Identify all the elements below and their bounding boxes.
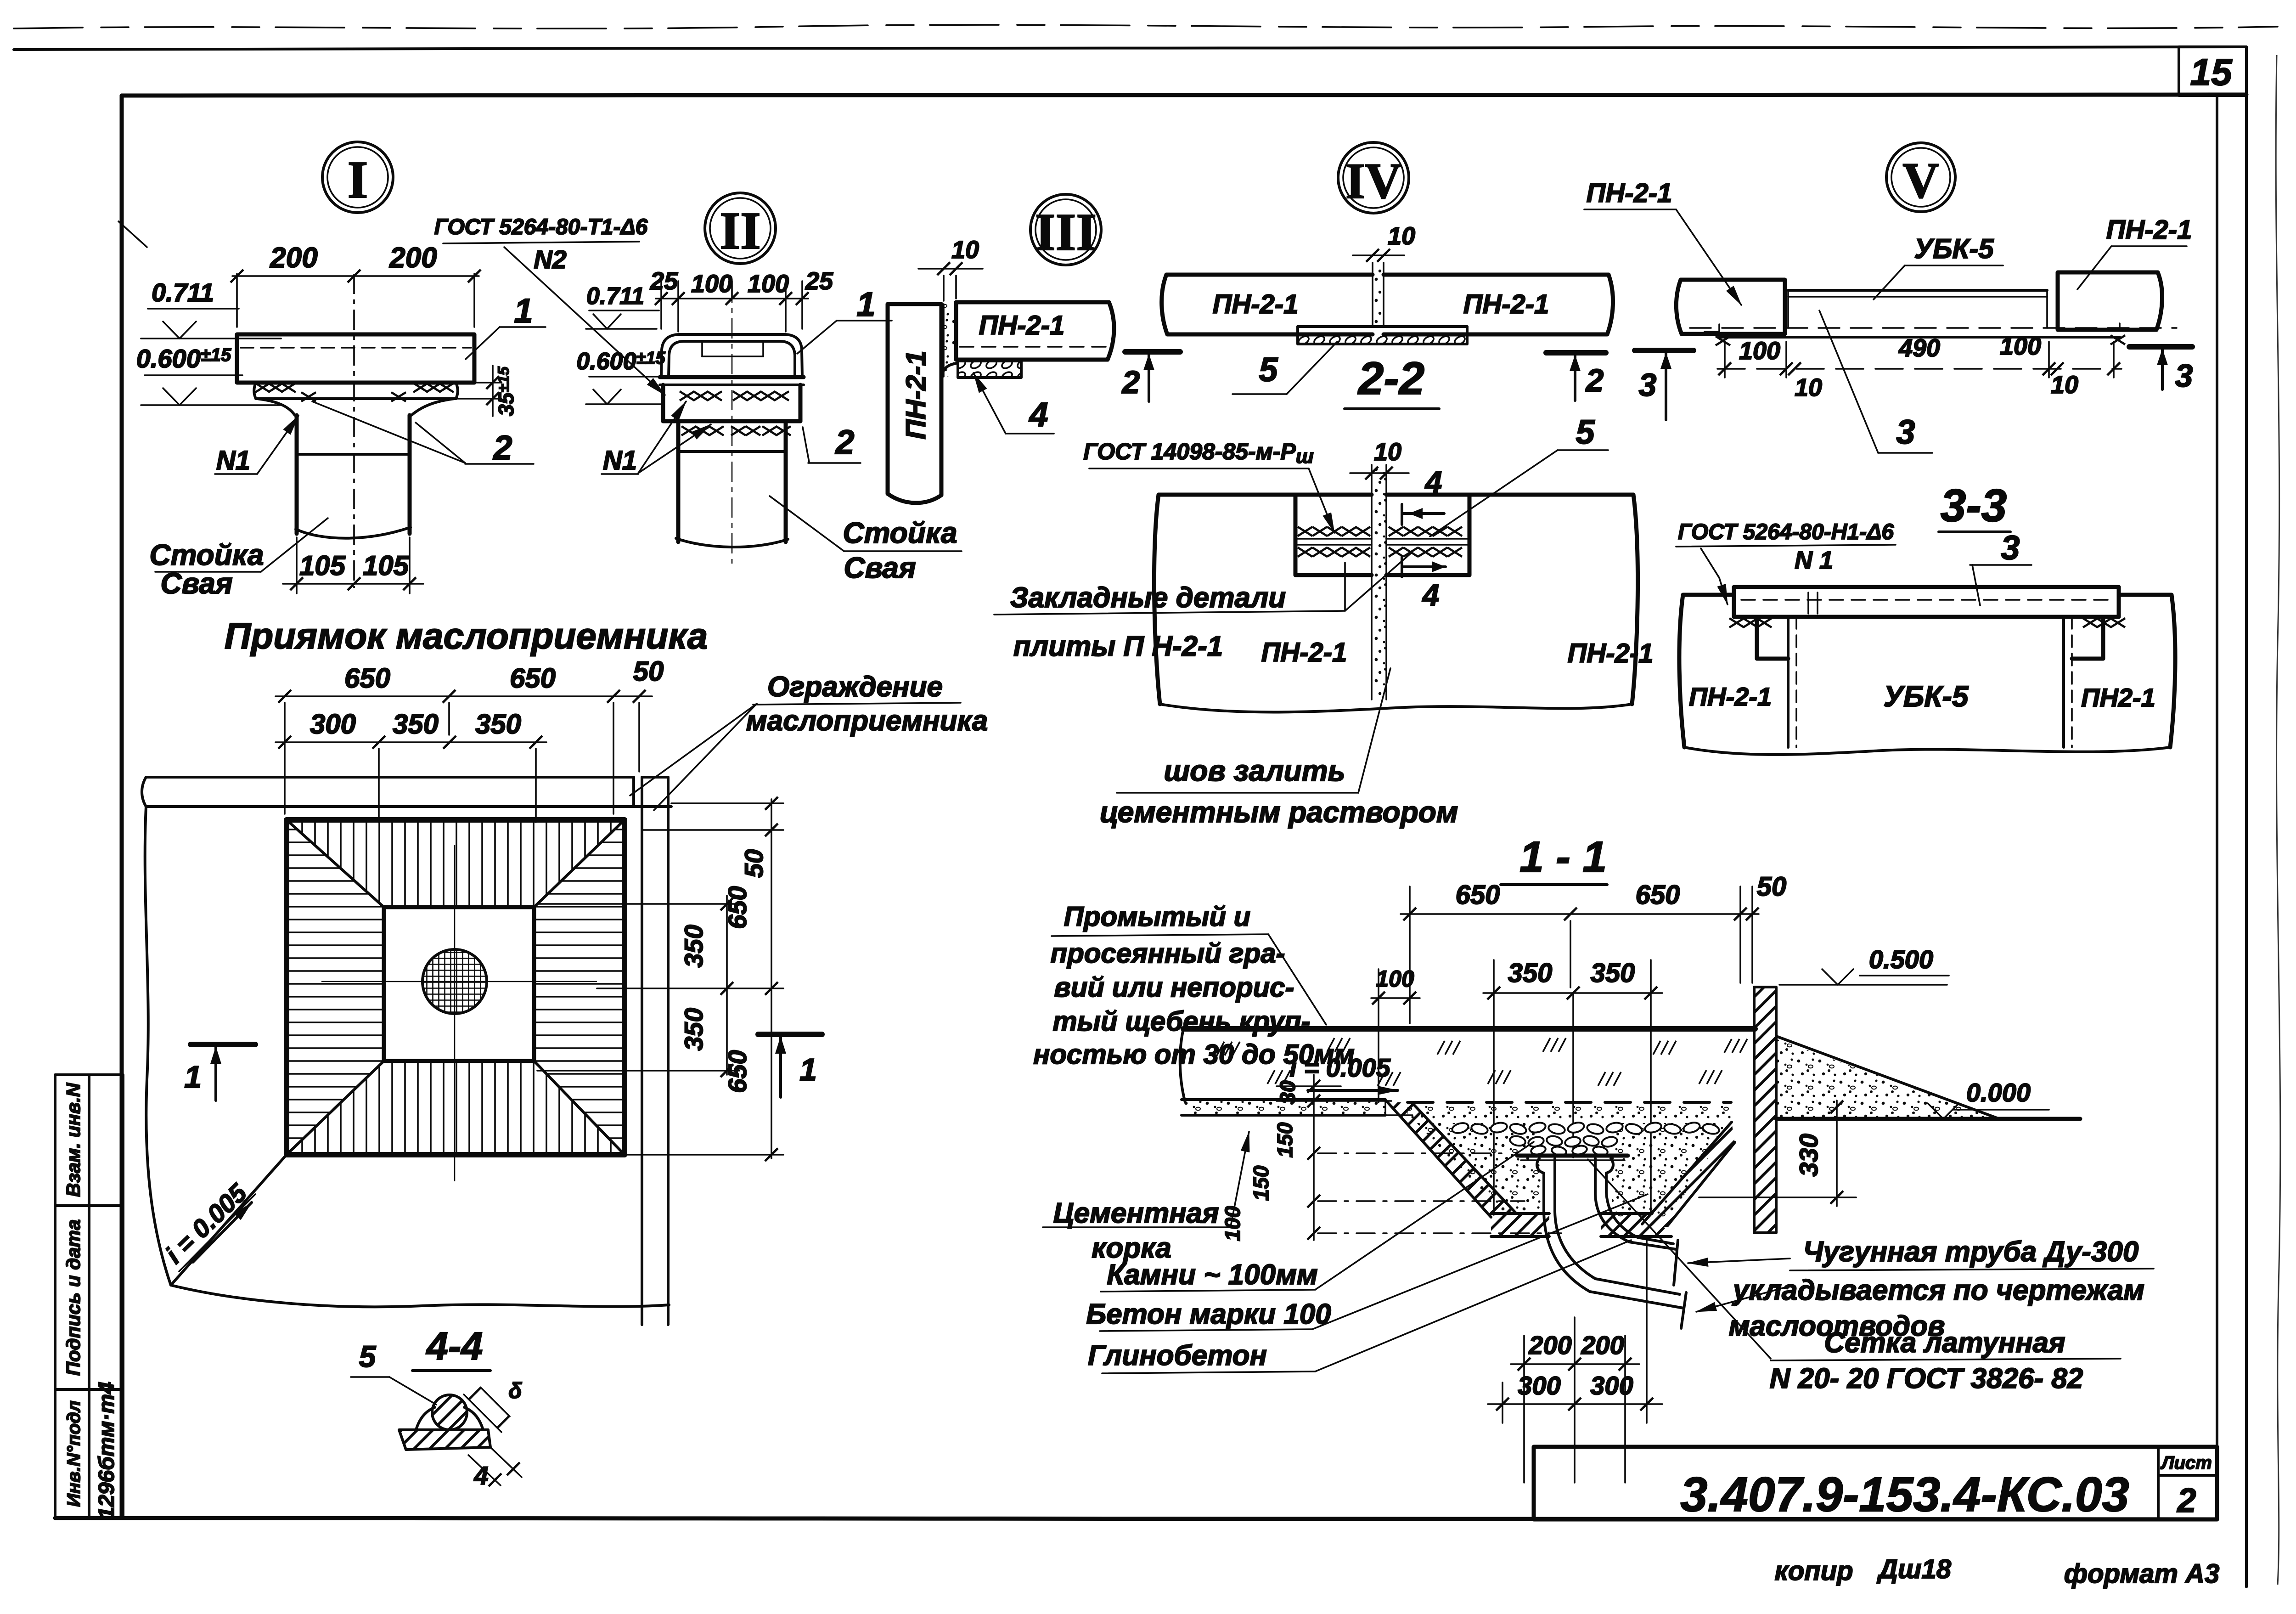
section mark 3 left bbox=[1635, 350, 1694, 420]
detail V dims 100 490 100 10 10 bbox=[1717, 333, 2122, 401]
detail II marker circle bbox=[705, 193, 776, 264]
svg-text:350: 350 bbox=[475, 709, 521, 739]
svg-text:УБК-5: УБК-5 bbox=[1914, 233, 1994, 264]
scratch mark near frame corner bbox=[118, 221, 147, 247]
detail II label 2 bbox=[803, 423, 861, 463]
stamp boxes bbox=[55, 1075, 123, 1518]
drawing frame bottom bbox=[55, 1518, 2217, 1519]
svg-text:200: 200 bbox=[1581, 1331, 1624, 1360]
svg-text:Дш18: Дш18 bbox=[1876, 1554, 1952, 1584]
2-2 view arrow 4 lower bbox=[1402, 557, 1446, 612]
svg-text:300: 300 bbox=[1590, 1371, 1633, 1400]
2-2 weld spec ГОСТ 14098-85-м-Рш bbox=[1083, 439, 1334, 533]
svg-text:I: I bbox=[348, 151, 368, 209]
svg-text:N1: N1 bbox=[603, 446, 637, 475]
detail I label 2 bbox=[312, 401, 534, 467]
4-4 weld bead circle bbox=[432, 1395, 467, 1430]
plan pit outer square bbox=[287, 820, 625, 1155]
svg-text:тый щебень круп-: тый щебень круп- bbox=[1052, 1006, 1310, 1037]
svg-text:ПН-2-1: ПН-2-1 bbox=[900, 350, 931, 439]
svg-text:Ограждение: Ограждение bbox=[767, 671, 943, 703]
detail II centerline bbox=[732, 282, 733, 569]
svg-text:ПН-2-1: ПН-2-1 bbox=[1463, 289, 1549, 319]
sheet number box bbox=[2179, 47, 2246, 96]
detail IV label 5 bbox=[1232, 342, 1337, 394]
detail II elevation 0.600±15 bbox=[576, 348, 670, 404]
svg-text:III: III bbox=[1035, 203, 1097, 261]
svg-text:100: 100 bbox=[2000, 333, 2041, 360]
detail I dim 105 105 bbox=[283, 537, 423, 593]
svg-text:1: 1 bbox=[799, 1052, 817, 1087]
detail II lower block with welds bbox=[678, 421, 791, 451]
1-1 pipe dims 300 300 bbox=[1488, 1240, 1662, 1423]
detail IV dim 10 bbox=[1353, 222, 1415, 262]
2-2 plates outline bbox=[1154, 495, 1638, 712]
svg-text:200: 200 bbox=[389, 242, 437, 274]
plan fence right strip bbox=[642, 777, 668, 1325]
detail II elevation 0.711 bbox=[586, 283, 659, 329]
svg-text:2: 2 bbox=[1585, 362, 1604, 398]
detail I label N1 bbox=[215, 416, 298, 475]
plan dim row 300 350 350 bbox=[276, 709, 546, 822]
svg-text:300: 300 bbox=[1518, 1371, 1560, 1400]
1-1 retaining wall bbox=[1754, 987, 1776, 1233]
svg-text:II: II bbox=[720, 202, 761, 260]
1-1 top dims 650 650 50 bbox=[1401, 872, 1786, 1023]
svg-text:Приямок маслоприемника: Приямок маслоприемника bbox=[225, 615, 708, 656]
detail III vertical plate ПН-2-1 bbox=[888, 304, 941, 503]
3-3 weld x marks bbox=[1729, 618, 2125, 627]
svg-text:УБК-5: УБК-5 bbox=[1884, 680, 1969, 713]
1-1 note Цементная корка bbox=[1043, 1132, 1249, 1264]
detail I label 1 bbox=[466, 292, 546, 359]
detail IV joint seam bbox=[1373, 263, 1384, 327]
1-1 slab glass hatch bbox=[1217, 1038, 1747, 1086]
plan hatch bottom band bbox=[287, 1061, 625, 1155]
plan centre lines bbox=[321, 845, 597, 1181]
svg-text:4: 4 bbox=[1424, 465, 1442, 499]
detail I plate 1 bbox=[237, 334, 474, 383]
svg-text:650: 650 bbox=[723, 1050, 752, 1093]
svg-text:650: 650 bbox=[344, 663, 390, 694]
4-4 base plate bbox=[399, 1430, 490, 1450]
svg-text:5: 5 bbox=[1576, 413, 1595, 451]
2-2 label Закладные детали плиты ПН-2-1 bbox=[994, 553, 1411, 662]
svg-text:105: 105 bbox=[363, 550, 410, 581]
svg-text:Инв.N°подл: Инв.N°подл bbox=[64, 1400, 84, 1507]
2-2 embedded plates box bbox=[1295, 495, 1469, 575]
svg-text:3: 3 bbox=[1896, 413, 1915, 451]
detail II label Стойка Свая bbox=[770, 496, 962, 584]
svg-text:100: 100 bbox=[1221, 1206, 1244, 1241]
detail III dim 10 bbox=[918, 236, 983, 301]
2-2 label 5 bbox=[1430, 413, 1608, 536]
plan ground left wavy edge bbox=[145, 807, 171, 1285]
svg-text:Лист: Лист bbox=[2160, 1453, 2212, 1473]
svg-text:Цементная: Цементная bbox=[1053, 1197, 1219, 1229]
svg-text:50: 50 bbox=[1757, 872, 1787, 902]
svg-text:100: 100 bbox=[748, 270, 789, 298]
svg-text:Сетка латунная: Сетка латунная bbox=[1824, 1327, 2065, 1359]
1-1 note Промытый и просеянный гравий bbox=[1033, 901, 1355, 1070]
plan right inner dim line 350 350 bbox=[679, 896, 733, 1077]
1-1 dims 350 350 bbox=[1483, 958, 1662, 1215]
svg-text:N2: N2 bbox=[534, 245, 567, 274]
svg-text:копир: копир bbox=[1774, 1556, 1853, 1586]
svg-text:10: 10 bbox=[1374, 438, 1401, 466]
plan section mark 1 right bbox=[758, 1034, 822, 1097]
detail IV backing strip 5 bbox=[1298, 327, 1467, 344]
detail I flange and welds bbox=[254, 383, 458, 415]
3-3 left block ПН-2-1 bbox=[1679, 595, 1788, 747]
svg-text:1: 1 bbox=[514, 292, 533, 330]
svg-text:ГОСТ 5264-80-Т1-Δ6: ГОСТ 5264-80-Т1-Δ6 bbox=[434, 215, 648, 239]
svg-text:0.711: 0.711 bbox=[152, 278, 214, 307]
svg-text:2: 2 bbox=[492, 429, 512, 467]
sheet right outer edge bbox=[2245, 47, 2248, 1587]
title block frame bbox=[1534, 1447, 2217, 1519]
1-1 note Камни ~100мм bbox=[1101, 1142, 1534, 1292]
svg-text:350: 350 bbox=[393, 709, 439, 739]
svg-text:ПН-2-1: ПН-2-1 bbox=[1213, 289, 1299, 319]
detail II label N1 bbox=[602, 401, 711, 475]
detail II dims 25 100 100 25 bbox=[650, 267, 833, 332]
detail II flange block with welds bbox=[663, 385, 800, 421]
drawing frame right inner bbox=[2216, 95, 2218, 1519]
section mark 2 right bbox=[1546, 353, 1606, 401]
4-4 dim delta bbox=[464, 1379, 522, 1432]
svg-text:3: 3 bbox=[2175, 358, 2193, 394]
1-1 brass mesh tray bbox=[1517, 1156, 1628, 1160]
detail III grout seam bbox=[944, 304, 956, 377]
svg-text:350: 350 bbox=[1508, 958, 1553, 988]
svg-text:ностью от 30 до 50мм: ностью от 30 до 50мм bbox=[1033, 1039, 1355, 1070]
svg-text:4: 4 bbox=[1028, 395, 1048, 434]
svg-text:δ: δ bbox=[508, 1379, 522, 1403]
plan hatch top band bbox=[287, 820, 625, 907]
svg-text:маслоприемника: маслоприемника bbox=[746, 705, 988, 737]
2-2 view arrow 4 upper bbox=[1402, 465, 1444, 525]
plan label Ограждение маслоприемника bbox=[630, 671, 988, 810]
svg-text:Свая: Свая bbox=[844, 551, 916, 584]
svg-text:10: 10 bbox=[1795, 374, 1822, 401]
1-1 note Чугунная труба Ду-300 bbox=[1688, 1236, 2154, 1342]
detail I label Стойка Свая bbox=[149, 518, 328, 600]
svg-text:ПН-2-1: ПН-2-1 bbox=[1261, 638, 1347, 667]
plan fold diagonals bbox=[287, 820, 625, 1155]
svg-text:ПН-2-1: ПН-2-1 bbox=[979, 310, 1065, 340]
svg-text:5: 5 bbox=[1259, 350, 1278, 389]
svg-text:Свая: Свая bbox=[160, 567, 232, 600]
svg-text:Промытый и: Промытый и bbox=[1064, 901, 1251, 932]
1-1 dim 100 bbox=[1371, 966, 1420, 1102]
svg-text:200: 200 bbox=[1528, 1331, 1571, 1360]
svg-text:150: 150 bbox=[1273, 1122, 1297, 1157]
4-4 title bbox=[412, 1325, 490, 1371]
plan ground bottom wavy line bbox=[171, 1285, 669, 1307]
svg-text:300: 300 bbox=[310, 709, 356, 739]
1-1 pit bottom slab bbox=[1491, 1213, 1671, 1236]
svg-text:плиты П Н-2-1: плиты П Н-2-1 bbox=[1013, 631, 1223, 662]
detail V bar УБК-5 bbox=[1690, 290, 2177, 337]
svg-text:0.000: 0.000 bbox=[1966, 1078, 2031, 1107]
4-4 dim 4 bbox=[468, 1447, 522, 1490]
4-4 side fillets bbox=[416, 1407, 483, 1430]
detail I marker circle bbox=[322, 142, 393, 213]
svg-text:Бетон марки 100: Бетон марки 100 bbox=[1086, 1298, 1331, 1330]
weld spec ГОСТ 5264-80-Т1-Δ6 N2 bbox=[434, 215, 665, 395]
svg-text:150: 150 bbox=[1249, 1165, 1273, 1201]
drawing frame top bbox=[122, 95, 2246, 96]
svg-text:25: 25 bbox=[650, 267, 678, 295]
plan hatch right band bbox=[534, 820, 625, 1155]
1-1 dim 330 bbox=[1699, 1100, 1856, 1206]
right paper-edge pencil squiggle bbox=[2276, 55, 2280, 1585]
svg-text:50: 50 bbox=[633, 656, 664, 687]
svg-text:просеянный гра-: просеянный гра- bbox=[1050, 938, 1285, 969]
plan slope arrow i=0.005 bbox=[160, 1178, 255, 1271]
svg-text:цементным раствором: цементным раствором bbox=[1100, 796, 1458, 829]
svg-text:2: 2 bbox=[1121, 364, 1140, 400]
1-1 floor slab bbox=[1180, 1029, 1755, 1102]
1-1 centre extension line bbox=[1572, 993, 1574, 1157]
svg-text:0.500: 0.500 bbox=[1869, 945, 1933, 974]
svg-text:10: 10 bbox=[1388, 222, 1415, 250]
svg-text:формат А3: формат А3 bbox=[2064, 1559, 2219, 1589]
detail II pile bbox=[676, 451, 788, 547]
svg-text:2: 2 bbox=[2176, 1481, 2196, 1519]
detail I centerline bbox=[353, 274, 355, 588]
detail I pile стойка/свая bbox=[296, 415, 411, 538]
svg-text:350: 350 bbox=[679, 925, 708, 967]
svg-text:1: 1 bbox=[184, 1060, 202, 1095]
svg-text:2: 2 bbox=[834, 423, 854, 461]
detail V label УБК-5 bbox=[1874, 233, 2003, 299]
svg-text:15: 15 bbox=[2190, 51, 2233, 93]
svg-text:N1: N1 bbox=[216, 446, 250, 475]
svg-text:1 - 1: 1 - 1 bbox=[1519, 833, 1607, 881]
svg-text:V: V bbox=[1902, 152, 1939, 209]
3-3 label 3 bbox=[1970, 529, 2032, 605]
svg-text:100: 100 bbox=[691, 270, 732, 298]
1-1 pit left slope wall bbox=[1385, 1101, 1516, 1217]
svg-text:4-4: 4-4 bbox=[426, 1325, 483, 1368]
svg-text:Взам. инв.N: Взам. инв.N bbox=[62, 1082, 84, 1197]
detail III label 4 bbox=[974, 373, 1054, 434]
svg-text:4: 4 bbox=[473, 1461, 488, 1490]
1-1 dashed level line over pit bbox=[1407, 1101, 1731, 1104]
1-1 note Сетка латунная N20-20 ГОСТ 3826-82 bbox=[1588, 1159, 2121, 1394]
detail V label ПН-2-1 top-right bbox=[2077, 215, 2192, 289]
detail I elevation 0.711 bbox=[141, 278, 281, 339]
svg-text:Подпись и дата: Подпись и дата bbox=[62, 1219, 84, 1376]
svg-text:Стойка: Стойка bbox=[843, 516, 957, 549]
svg-text:5: 5 bbox=[359, 1339, 377, 1373]
2-2 dim 10 bbox=[1350, 438, 1409, 480]
1-1 stones Камни layer bbox=[1451, 1121, 1720, 1157]
1-1 pipe dims 200 200 bbox=[1511, 1317, 1639, 1483]
detail I dim 200 200 bbox=[231, 242, 481, 327]
svg-text:ПН-2-1: ПН-2-1 bbox=[2106, 215, 2192, 245]
svg-text:вий или непорис-: вий или непорис- bbox=[1054, 972, 1294, 1003]
plan mesh drain circle bbox=[422, 949, 487, 1014]
svg-text:100: 100 bbox=[1376, 966, 1414, 992]
svg-text:100: 100 bbox=[1739, 337, 1780, 365]
section title 3-3 bbox=[1939, 480, 2010, 532]
svg-text:ГОСТ 5264-80-Н1-Δ6: ГОСТ 5264-80-Н1-Δ6 bbox=[1678, 520, 1894, 544]
2-2 label шов залить цементным раствором bbox=[1100, 668, 1458, 829]
svg-text:350: 350 bbox=[679, 1008, 708, 1050]
1-1 note Глинобетон bbox=[1088, 1240, 1631, 1373]
svg-text:3: 3 bbox=[2001, 529, 2020, 567]
1-1 cement crust band bbox=[1182, 1100, 1385, 1115]
1-1 concrete fill dots bbox=[1417, 1123, 1726, 1217]
3-3 ground break line bbox=[1684, 747, 2170, 755]
detail II hat profile bbox=[661, 334, 802, 377]
svg-text:N 20- 20 ГОСТ 3826- 82: N 20- 20 ГОСТ 3826- 82 bbox=[1770, 1363, 2083, 1394]
detail IV plate band right ПН-2-1 bbox=[1384, 275, 1613, 334]
1-1 pit right slope wall bbox=[1642, 1122, 1735, 1227]
svg-text:105: 105 bbox=[299, 550, 346, 581]
plan right dim extensions bbox=[537, 803, 783, 1155]
svg-text:IV: IV bbox=[1345, 153, 1401, 209]
detail I dim 35±15 bbox=[456, 366, 518, 416]
svg-text:ПН-2-1: ПН-2-1 bbox=[1568, 638, 1654, 668]
svg-text:4: 4 bbox=[1422, 578, 1440, 612]
4-4 label 5 bbox=[351, 1339, 436, 1405]
1-1 ground line and elevation 0.000 bbox=[1776, 1078, 2080, 1119]
detail II label 1 bbox=[797, 285, 892, 354]
detail V label 3 bbox=[1819, 310, 1932, 453]
1-1 note Бетон марки 100 bbox=[1086, 1194, 1648, 1331]
svg-text:1296бтм·т4: 1296бтм·т4 bbox=[95, 1382, 119, 1519]
svg-text:0.711: 0.711 bbox=[586, 283, 644, 310]
svg-text:350: 350 bbox=[1591, 958, 1635, 988]
detail III support bracket with weld bead bbox=[941, 361, 1021, 378]
svg-text:1: 1 bbox=[856, 285, 875, 323]
3-3 right block ПН2-1 bbox=[2072, 595, 2175, 747]
detail V left plate ПН-2-1 bbox=[1676, 280, 1785, 334]
1-1 cast iron pipe elbow bbox=[1537, 1158, 1686, 1328]
plan section mark 1 left bbox=[184, 1044, 255, 1100]
svg-text:2-2: 2-2 bbox=[1357, 353, 1425, 404]
svg-text:Закладные детали: Закладные детали bbox=[1010, 582, 1286, 614]
detail V marker circle bbox=[1886, 143, 1955, 212]
1-1 left depth dims 30 150 150 100 bbox=[1221, 1075, 1561, 1241]
section mark 3 right bbox=[2129, 347, 2193, 394]
svg-text:10: 10 bbox=[2051, 371, 2078, 399]
top sheet solid line bbox=[14, 47, 2246, 50]
svg-text:Глинобетон: Глинобетон bbox=[1088, 1340, 1267, 1371]
section mark 2 left bbox=[1121, 352, 1180, 401]
svg-text:укладывается по чертежам: укладывается по чертежам bbox=[1732, 1275, 2144, 1306]
svg-text:Чугунная труба Ду-300: Чугунная труба Ду-300 bbox=[1803, 1236, 2139, 1268]
svg-text:ПН-2-1: ПН-2-1 bbox=[1689, 682, 1772, 711]
svg-text:ГОСТ 14098-85-м-Рш: ГОСТ 14098-85-м-Рш bbox=[1083, 439, 1314, 468]
section title 2-2 bbox=[1345, 353, 1439, 409]
svg-text:Камни ~ 100мм: Камни ~ 100мм bbox=[1107, 1259, 1318, 1291]
detail V label ПН-2-1 top-left bbox=[1584, 178, 1741, 305]
svg-text:10: 10 bbox=[951, 236, 979, 264]
detail I elevation 0.600±15 bbox=[136, 344, 281, 405]
svg-text:N 1: N 1 bbox=[1795, 547, 1833, 574]
svg-text:650: 650 bbox=[510, 663, 556, 694]
svg-text:3-3: 3-3 bbox=[1941, 480, 2007, 531]
svg-text:490: 490 bbox=[1898, 334, 1940, 362]
plan dim row 650 650 50 bbox=[276, 656, 664, 814]
svg-text:25: 25 bbox=[805, 267, 833, 295]
3-3 left wall joint bbox=[1788, 617, 1796, 747]
svg-text:ПН-2-1: ПН-2-1 bbox=[1587, 178, 1672, 208]
1-1 title bbox=[1501, 833, 1607, 885]
svg-text:50: 50 bbox=[739, 849, 768, 878]
detail III marker circle bbox=[1030, 194, 1101, 265]
plan right outer dim line 650 650 50 bbox=[723, 797, 778, 1161]
plan inner square bbox=[384, 907, 534, 1061]
plan fence top strip bbox=[142, 777, 671, 807]
1-1 backfill wedge bbox=[1776, 1036, 1999, 1119]
1-1 gravel band over pit bbox=[1407, 1106, 1731, 1121]
1-1 slope label i=0.005 bbox=[1289, 1053, 1398, 1090]
svg-text:650: 650 bbox=[723, 886, 752, 929]
svg-text:200: 200 bbox=[270, 242, 317, 274]
detail IV plate band left ПН-2-1 bbox=[1162, 275, 1373, 334]
plan hatch left band bbox=[287, 820, 384, 1155]
detail II base plate bbox=[660, 377, 804, 385]
svg-text:ПН2-1: ПН2-1 bbox=[2081, 683, 2155, 712]
2-2 weld x rows bbox=[1298, 527, 1462, 557]
detail IV marker circle bbox=[1338, 142, 1409, 213]
svg-text:330: 330 bbox=[1794, 1134, 1823, 1176]
svg-text:3.407.9-153.4-КС.03: 3.407.9-153.4-КС.03 bbox=[1680, 1467, 2129, 1522]
detail III horizontal plate ПН-2-1 bbox=[956, 302, 1114, 360]
plan apron corner diagonal bbox=[171, 1155, 287, 1285]
svg-text:шов залить: шов залить bbox=[1164, 754, 1345, 787]
drawing frame left bbox=[120, 96, 124, 1518]
3-3 right wall joint bbox=[2064, 617, 2072, 747]
3-3 cover plate 3 bbox=[1734, 587, 2119, 617]
1-1 elevation 0.500 bbox=[1779, 945, 1949, 985]
2-2 grout seam column bbox=[1372, 465, 1386, 700]
detail V right plate ПН-2-1 bbox=[2058, 272, 2162, 330]
svg-text:650: 650 bbox=[1636, 880, 1680, 910]
top sheet edge dashed line bbox=[14, 25, 2278, 28]
detail V small weld x marks bbox=[1705, 323, 2134, 345]
svg-text:3: 3 bbox=[1639, 367, 1657, 403]
3-3 weld spec ГОСТ 5264-80-Н1-Δ6 N1 bbox=[1676, 520, 1896, 604]
svg-text:650: 650 bbox=[1456, 880, 1500, 910]
